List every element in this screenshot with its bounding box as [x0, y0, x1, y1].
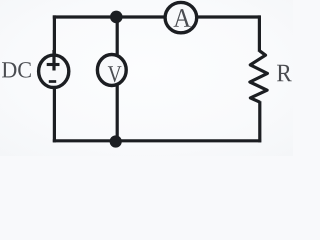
junction: bottom node [110, 135, 122, 147]
resistor R zigzag body [250, 51, 268, 102]
label DC [2, 62, 31, 78]
wire: middle vertical (voltmeter branch) [116, 15, 119, 141]
wire: right vertical upper (to resistor) [258, 15, 261, 51]
ammeter A [165, 2, 197, 32]
wire: right vertical lower (resistor to bottom) [258, 101, 261, 142]
junction: top node [110, 11, 123, 24]
wire: bottom horizontal return [53, 139, 261, 142]
DC source (battery symbol with polarity marks) [39, 50, 69, 88]
voltmeter V [97, 55, 126, 86]
wire: left vertical (DC source branch) [53, 15, 56, 142]
wire: top horizontal (node between source, meters and resistor) [53, 15, 261, 18]
label R [277, 65, 292, 82]
